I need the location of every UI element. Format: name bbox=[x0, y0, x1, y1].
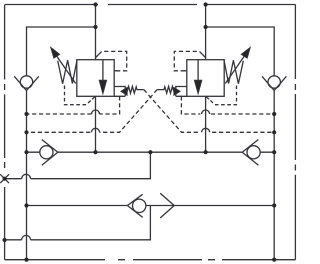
check valve CV5 (lower, with flow arrow) bbox=[127, 194, 145, 217]
wire: right port line lower bbox=[273, 91, 275, 260]
hop of relief branch over left port line bbox=[22, 174, 31, 178]
V1 adjustment arrow bbox=[51, 47, 76, 83]
wire: mid line bbox=[27, 151, 275, 153]
wire: lower line bbox=[27, 205, 275, 207]
pilot line 2 cross dashed (V1 pilot to right port) bbox=[148, 94, 275, 132]
wire: inner top rail left bbox=[27, 27, 96, 76]
wire: right supply vertical bbox=[205, 5, 207, 153]
wire: relief branch vertical upper bbox=[5, 152, 151, 179]
pilot line 1 left dashed (V1 drain to left port) bbox=[27, 96, 120, 114]
pilot line 2 cross dashed (V2 pilot to left port) bbox=[27, 94, 154, 132]
wire: left port line lower bbox=[26, 91, 28, 260]
V2 pilot node tick bbox=[154, 90, 157, 93]
check valve CV2 (right port, free flow up) bbox=[262, 76, 286, 91]
wire: left supply vertical bbox=[95, 5, 97, 153]
V2 pilot piston box bbox=[176, 87, 187, 97]
counterbalance valve V1 body (left) bbox=[77, 60, 114, 97]
check valve CV1 (left port, free flow up) bbox=[14, 76, 39, 91]
hop of lower branch over left port line bbox=[22, 235, 31, 239]
V1 internal pilot dashed (top) bbox=[96, 51, 127, 70]
counterbalance valve V2 body (right) bbox=[187, 60, 224, 97]
check valve CV3 (mid left) bbox=[40, 140, 58, 166]
V2 pilot spring bbox=[157, 86, 174, 93]
wire: inner top rail right bbox=[206, 27, 275, 76]
V1 pilot check arrow bbox=[121, 87, 127, 95]
wire: lower branch vertical bbox=[5, 206, 151, 240]
enclosure left border bbox=[4, 5, 6, 260]
V1 spring chamber drain dashed bbox=[65, 86, 96, 105]
enclosure right border bbox=[294, 5, 296, 260]
enclosure top border bbox=[5, 4, 295, 6]
V1 pilot spring bbox=[127, 86, 144, 93]
V2 internal pilot dashed (top) bbox=[174, 51, 205, 70]
check valve CV4 (mid right) bbox=[242, 140, 260, 166]
enclosure bottom border bbox=[5, 259, 296, 261]
V1 adjustable spring bbox=[58, 60, 77, 84]
plugged port X on left border bbox=[0, 174, 9, 183]
V2 spring chamber drain dashed bbox=[206, 86, 237, 105]
pilot line 1 right dashed (V2 drain to right port) bbox=[181, 96, 274, 114]
V2 pilot check arrow bbox=[174, 87, 180, 95]
V1 pilot piston box bbox=[114, 87, 125, 97]
V1 pilot node tick bbox=[144, 90, 147, 93]
flow arrow on lower line bbox=[160, 193, 174, 218]
V2 adjustment arrow bbox=[225, 47, 250, 83]
V2 adjustable spring bbox=[224, 60, 243, 84]
